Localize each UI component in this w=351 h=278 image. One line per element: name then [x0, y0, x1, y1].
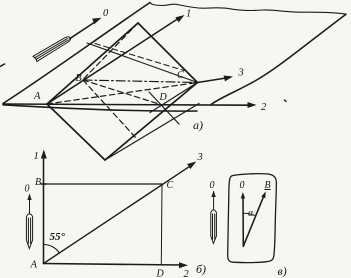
svg-text:A: A: [30, 260, 38, 271]
lying square edge C-D extended: [150, 83, 198, 113]
svg-text:55°: 55°: [50, 231, 66, 243]
v vertical arrow O: [242, 196, 244, 247]
svg-text:C: C: [167, 180, 174, 191]
square plate edge T1-C: [138, 23, 198, 83]
wire plane wavy top torn edge: [150, 3, 346, 15]
square plate edge A-V1: [47, 104, 105, 160]
axis 0 arrowhead: [92, 18, 101, 24]
axis 2 horizontal: [44, 264, 182, 266]
dashed edge B-C dash-dot: [83, 80, 198, 83]
svg-text:3: 3: [197, 152, 203, 163]
wire plane right edge: [211, 14, 346, 104]
svg-text:2: 2: [261, 102, 267, 113]
axis 2 wire through A and D: [3, 104, 249, 105]
v tilted arrow B: [243, 195, 264, 247]
svg-text:D: D: [156, 269, 165, 278]
blob outline: [228, 174, 277, 263]
svg-text:0: 0: [103, 8, 109, 19]
svg-text:A: A: [33, 91, 41, 102]
B tick: [41, 183, 46, 185]
svg-text:0: 0: [25, 184, 30, 195]
svg-text:б): б): [196, 262, 206, 276]
feather symbol left of b: [26, 194, 32, 249]
svg-text:0: 0: [210, 180, 215, 191]
dashed edge K-C companion: [95, 44, 184, 71]
axis 1 arrowhead: [175, 15, 184, 22]
svg-text:B: B: [76, 73, 82, 84]
edge K-C on plane: [87, 43, 198, 83]
svg-text:3: 3: [238, 68, 244, 79]
feather symbol top-left: [33, 37, 71, 62]
svg-text:α: α: [248, 208, 254, 219]
square plate edge A-T1: [47, 23, 138, 104]
square plate edge C-V1: [105, 83, 198, 161]
axis 1 vertical: [43, 157, 45, 264]
dot right of axis 2: [285, 100, 287, 102]
svg-text:1: 1: [34, 151, 39, 162]
svg-text:D: D: [159, 92, 168, 103]
wire plane bottom edge: [3, 105, 197, 111]
line C-D: [160, 185, 163, 264]
axis 0 wire top-left: [70, 21, 98, 39]
svg-text:C: C: [177, 70, 184, 81]
svg-text:в): в): [278, 264, 287, 278]
axis 3 arrowhead: [224, 76, 233, 82]
dashed line T1-B: [83, 23, 138, 80]
dashed line B-D: [83, 80, 162, 105]
plate thickness edge V1 lower: [105, 104, 199, 161]
svg-text:0: 0: [240, 180, 245, 191]
line B-C: [44, 183, 163, 185]
svg-text:1: 1: [186, 9, 191, 20]
left edge tick: [0, 64, 5, 67]
dashed diagonal A-C: [47, 83, 198, 105]
axis 1 wire from A through B: [47, 18, 179, 104]
svg-text:а): а): [193, 118, 203, 132]
feather symbol left of v: [211, 191, 217, 244]
wire plane left edge: [3, 3, 150, 104]
svg-text:B: B: [265, 180, 271, 191]
diagonal axis 3: [44, 166, 191, 264]
axis 2 arrowhead: [248, 102, 257, 108]
svg-text:B: B: [35, 177, 41, 188]
svg-text:2: 2: [184, 269, 190, 278]
dashed line B down-right: [83, 80, 136, 138]
axis 3 wire from C: [198, 78, 227, 83]
55 degree arc: [44, 244, 60, 252]
alpha arc: [243, 213, 256, 216]
crossing line at D: [149, 92, 179, 124]
